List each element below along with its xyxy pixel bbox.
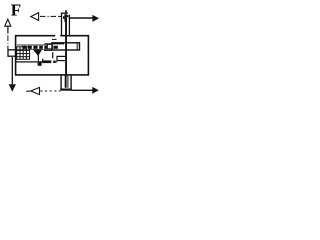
feedback rod line bbox=[16, 61, 42, 63]
lower guide sleeve left wall bbox=[60, 76, 62, 90]
left port boss bbox=[8, 50, 16, 56]
motion arrow bottom-right (filled) bbox=[92, 87, 99, 94]
spool bottom extension line bbox=[44, 49, 52, 51]
spool body bbox=[52, 43, 80, 50]
piston in dashpot bbox=[64, 14, 67, 22]
piston rod tip bbox=[65, 10, 67, 13]
svg-text:F: F bbox=[11, 0, 21, 19]
spool rack frame bottom line bbox=[17, 48, 47, 50]
down arrow shaft bbox=[11, 57, 13, 84]
motion arrow top-left (open head) bbox=[31, 13, 39, 21]
nozzle funnel (filled) bbox=[33, 50, 42, 56]
step ledge bbox=[52, 38, 57, 40]
output rod line top right bbox=[69, 17, 92, 19]
output line bottom right bbox=[71, 89, 92, 91]
spool interior mark bbox=[53, 46, 57, 49]
motion arrow top-right (filled) bbox=[92, 15, 99, 22]
short dash left of bottom arrow bbox=[26, 90, 30, 92]
spool left collar bbox=[47, 44, 52, 49]
horizontal centerline dash-dot top bbox=[40, 15, 61, 17]
threaded rod dashes bbox=[22, 46, 47, 49]
blob under nozzle (filled) bbox=[38, 62, 42, 66]
nozzle stem bbox=[37, 55, 39, 62]
motion arrow bottom-left (open head) bbox=[31, 87, 40, 94]
valve body outline bbox=[16, 36, 89, 75]
rod stop box bbox=[57, 56, 66, 60]
force arrow up (open head) bbox=[5, 19, 11, 26]
sleeve bottom bar bbox=[60, 89, 71, 91]
lower rod inside sleeve bbox=[65, 76, 67, 88]
spool rack frame top line bbox=[17, 44, 47, 46]
down arrow head (filled) bbox=[9, 84, 16, 92]
lower guide sleeve right wall bbox=[70, 76, 72, 91]
spool end cap line bbox=[76, 43, 78, 50]
top edge gap bbox=[55, 35, 60, 37]
crosshatched piston block bbox=[17, 47, 30, 60]
damper band (filled) bbox=[42, 60, 51, 63]
dashpot cylinder bbox=[61, 13, 63, 35]
damper tick above band bbox=[42, 59, 43, 61]
vertical centerline dash-dot bbox=[7, 36, 9, 50]
horizontal centerline dash-dot bottom bbox=[40, 90, 60, 92]
link tick bbox=[52, 52, 54, 58]
chamber top wall bbox=[45, 43, 64, 45]
piston rod vertical bbox=[65, 19, 67, 76]
